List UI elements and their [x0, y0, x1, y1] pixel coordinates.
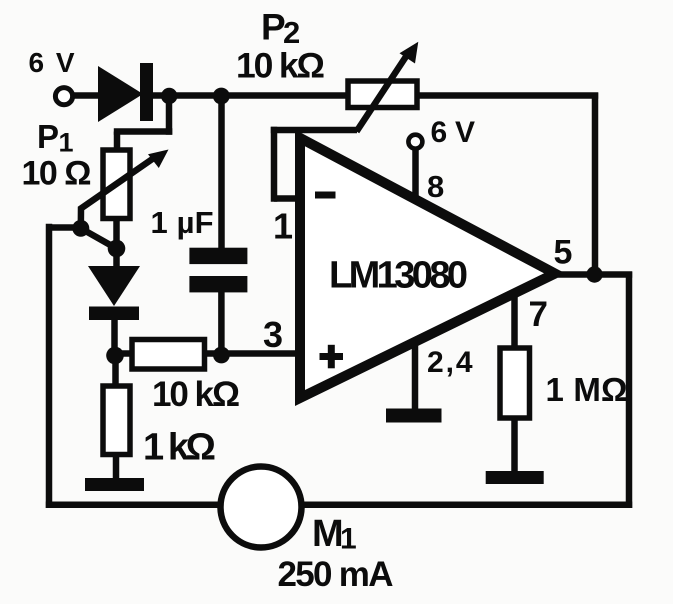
svg-text:1: 1 [340, 523, 357, 556]
svg-text:10 kΩ: 10 kΩ [236, 46, 325, 86]
svg-text:250 mA: 250 mA [278, 555, 394, 594]
svg-text:10 Ω: 10 Ω [22, 155, 92, 193]
svg-text:1: 1 [273, 206, 293, 247]
svg-text:10 kΩ: 10 kΩ [152, 375, 240, 414]
svg-text:8: 8 [427, 169, 444, 204]
svg-text:1 µF: 1 µF [151, 205, 214, 240]
svg-text:P: P [37, 118, 59, 155]
svg-text:1: 1 [59, 128, 74, 158]
svg-text:M: M [312, 513, 344, 555]
svg-text:6 V: 6 V [29, 47, 75, 78]
svg-text:V: V [455, 116, 475, 149]
svg-text:3: 3 [263, 314, 283, 355]
svg-text:1 kΩ: 1 kΩ [143, 427, 216, 469]
svg-text:1 MΩ: 1 MΩ [546, 371, 628, 408]
svg-text:5: 5 [554, 234, 573, 272]
svg-text:P: P [261, 7, 286, 48]
svg-text:LM13080: LM13080 [329, 255, 468, 297]
svg-text:2,4: 2,4 [427, 346, 473, 379]
svg-text:7: 7 [529, 295, 548, 334]
svg-text:6: 6 [431, 116, 448, 149]
